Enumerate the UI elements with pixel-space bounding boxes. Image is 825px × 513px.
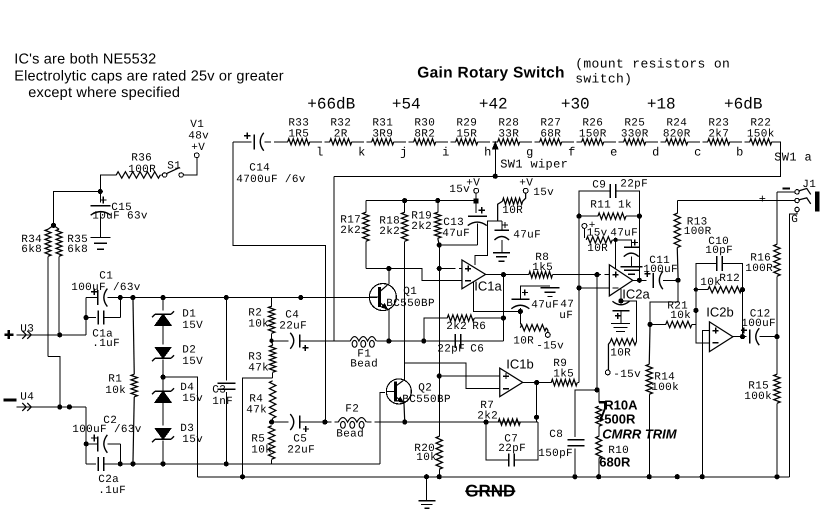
capacitor C2 100uF/63v <box>72 415 142 464</box>
capacitor C12 100uF <box>741 308 777 345</box>
svg-text:2k2: 2k2 <box>379 226 400 238</box>
junction R15 bottom <box>774 474 779 479</box>
svg-text:10k: 10k <box>248 318 269 330</box>
wire minus rail <box>120 463 380 465</box>
wire Q1 collector to IC1a minus <box>389 269 462 281</box>
svg-text:j: j <box>400 145 407 159</box>
junction IC2b plus bottom <box>700 474 705 479</box>
svg-text:+54: +54 <box>392 95 421 113</box>
svg-text:R12: R12 <box>719 273 740 285</box>
svg-text:100R: 100R <box>128 164 156 176</box>
resistor R25 330R <box>621 117 649 145</box>
note: mount resistors on switch <box>575 56 730 86</box>
wire plus rail <box>120 297 377 299</box>
junction IC2b minus node <box>693 308 698 313</box>
svg-text:R10A: R10A <box>604 397 638 412</box>
resistor R22 150k <box>747 117 775 145</box>
wire Q2 collector to IC1b minus <box>404 363 499 389</box>
junction Q1 emitter <box>386 338 391 343</box>
svg-text:10R: 10R <box>513 335 534 347</box>
svg-text:except where specified: except where specified <box>28 85 180 101</box>
svg-text:d: d <box>652 145 659 159</box>
junction IC2a V- node <box>618 298 623 303</box>
junction V- bypass node <box>518 309 523 314</box>
svg-text:22uF: 22uF <box>279 320 307 332</box>
gain label +42 <box>479 95 508 113</box>
resistor R34 6k8 <box>21 225 53 356</box>
junction IC1a output node <box>501 272 506 277</box>
wire SW1 box left edge <box>333 176 335 341</box>
note text: ICs are NE5532 <box>14 51 284 101</box>
junction R34/R35 top <box>51 223 56 228</box>
svg-text:100k: 100k <box>651 382 679 394</box>
svg-text:IC1b: IC1b <box>506 356 533 371</box>
resistor R4 47k <box>246 381 276 422</box>
svg-text:10R: 10R <box>610 347 631 359</box>
wire emitter2 line to R7 <box>405 421 538 423</box>
svg-text:Bead: Bead <box>350 358 378 370</box>
capacitor C9 22pF <box>579 178 648 216</box>
terminal +15v (IC2a V+) <box>582 220 608 240</box>
svg-text:+30: +30 <box>561 95 590 113</box>
wire IC1b plus lead <box>439 375 500 377</box>
capacitor 47uF (IC2a V+ bypass) <box>610 227 639 266</box>
resistor 10R to -15v (IC1 V-) <box>513 311 548 347</box>
svg-text:150k: 150k <box>747 128 775 140</box>
svg-text:48v: 48v <box>188 130 209 142</box>
junction trim tap <box>594 387 599 392</box>
junction C11 right node <box>676 278 681 283</box>
svg-text:GRND: GRND <box>465 481 515 500</box>
switch S1 <box>162 160 183 177</box>
capacitor C13 47uF <box>439 201 487 245</box>
svg-text:C6: C6 <box>470 343 484 355</box>
resistor R36 100R <box>116 152 162 178</box>
junction extra on U4 line <box>67 404 72 409</box>
svg-text:100R: 100R <box>745 263 773 275</box>
svg-text:.1uF: .1uF <box>98 485 126 497</box>
capacitor C1a .1uF <box>86 298 120 350</box>
svg-text:+V: +V <box>191 142 205 154</box>
resistor 10R to +15v (IC1 V+) <box>498 193 526 221</box>
resistor R12 10k <box>696 273 742 293</box>
wire V1 to S1 <box>183 158 197 175</box>
svg-text:820R: 820R <box>663 128 691 140</box>
svg-text:R1: R1 <box>108 373 122 385</box>
op-amp IC2a <box>609 265 650 302</box>
junction C12 right node <box>774 334 779 339</box>
gain label +6dB <box>724 95 762 113</box>
wire SW1 box right edge <box>334 142 781 177</box>
wire IC2b plus jog to GRND <box>702 331 709 477</box>
wire J1 minus to R16 <box>777 191 795 193</box>
svg-text:68R: 68R <box>540 128 561 140</box>
svg-text:C9: C9 <box>592 179 606 191</box>
junction C1 right <box>118 295 123 300</box>
SW1 wiper arrow <box>492 141 499 179</box>
junction R2/R3 node <box>269 339 273 343</box>
svg-text:22uF: 22uF <box>287 444 315 456</box>
resistor R29 15R <box>456 117 478 145</box>
junction stray on plus rail <box>298 295 303 300</box>
resistor R16 100R <box>745 192 780 337</box>
wire IC1a output <box>486 274 529 276</box>
wire R17 bottom to collector line <box>366 268 422 270</box>
ground C15 <box>91 237 111 249</box>
svg-text:330R: 330R <box>621 128 649 140</box>
svg-text:(mount resistors on: (mount resistors on <box>575 56 730 71</box>
resistor R32 2R <box>330 117 352 145</box>
svg-text:680R: 680R <box>599 454 631 469</box>
svg-text:Gain Rotary Switch: Gain Rotary Switch <box>417 64 565 81</box>
svg-text:22pF: 22pF <box>498 443 526 455</box>
resistor R28 33R <box>498 117 520 145</box>
capacitor C10 10pF <box>696 236 743 290</box>
resistor R14 100k <box>646 324 679 476</box>
wire R34 jog to U4 line <box>48 356 60 407</box>
junction R6 right <box>501 315 506 320</box>
wire R8 to IC2a plus <box>552 274 609 276</box>
resistor R13 100R <box>674 201 712 281</box>
junction C2 left <box>84 441 89 446</box>
junction C3 bottom <box>224 461 229 466</box>
svg-text:b: b <box>736 145 743 159</box>
resistor R1 10k <box>105 298 137 464</box>
svg-text:1nF: 1nF <box>212 396 233 408</box>
wire R11 right to output <box>638 216 640 280</box>
junction R35 on U3 line <box>57 332 62 337</box>
wire plus node down <box>596 275 598 390</box>
junction C14 tap on C5 line <box>322 419 327 424</box>
ferrite bead F2 <box>325 403 405 440</box>
svg-text:Q2: Q2 <box>418 382 432 394</box>
resistor 10R (IC2a V+) <box>584 228 615 254</box>
capacitor 47uF (IC2a V- bypass) <box>559 299 629 324</box>
wire C14 right lead <box>264 141 288 143</box>
svg-text:150R: 150R <box>579 128 607 140</box>
junction Q2 emitter <box>402 419 407 424</box>
wire Q1 emitter drop <box>388 309 390 341</box>
op-amp IC2b <box>706 304 733 351</box>
junction R11 right <box>637 214 642 219</box>
capacitor 47uF (IC1 V+ bypass) <box>494 221 541 252</box>
svg-text:2k7: 2k7 <box>708 128 729 140</box>
wire U4 line <box>31 406 86 408</box>
junction R7 left <box>483 419 488 424</box>
ferrite bead F1 <box>334 337 386 371</box>
svg-text:k: k <box>358 145 365 159</box>
svg-text:10pF: 10pF <box>705 245 733 257</box>
svg-text:47uF: 47uF <box>531 299 559 311</box>
switch position letters l-b <box>316 145 743 159</box>
wire IC2a V+ stub <box>615 240 617 268</box>
svg-text:C3: C3 <box>212 384 226 396</box>
capacitor C5 22uF <box>272 414 325 456</box>
resistor R10 680R <box>596 426 631 477</box>
svg-text:C8: C8 <box>549 429 563 441</box>
wire minus net vertical <box>578 191 580 382</box>
capacitor C11 100uF <box>643 255 678 290</box>
svg-text:10k: 10k <box>416 452 437 464</box>
svg-text:+6dB: +6dB <box>724 95 762 113</box>
resistor R31 3R9 <box>372 117 394 145</box>
resistor R6 2k2 <box>424 315 504 341</box>
resistor R3 47k <box>248 341 276 378</box>
junction R11 left <box>576 214 581 219</box>
svg-text:F2: F2 <box>345 403 359 415</box>
wire R3/R4 junction to GRND drop <box>243 378 273 477</box>
junction IC2a output node <box>637 278 642 283</box>
resistor R33 1R5 <box>288 117 310 145</box>
svg-text:i: i <box>442 145 449 159</box>
capacitor C2a .1uF <box>86 457 126 497</box>
svg-text:C14: C14 <box>249 162 270 174</box>
svg-text:3R9: 3R9 <box>372 128 393 140</box>
resistor R18 2k2 <box>379 201 408 368</box>
label GRND <box>465 481 515 500</box>
svg-text:IC1a: IC1a <box>474 278 502 293</box>
junction R21/R14 node <box>647 322 652 327</box>
ground (IC1 V+ bypass) <box>493 253 510 262</box>
wire IC1a out to R6 node <box>502 275 504 341</box>
junction C3 top <box>224 295 229 300</box>
capacitor C1 100uF/63v <box>71 270 141 306</box>
svg-text:+V: +V <box>519 177 533 189</box>
svg-text:15v: 15v <box>182 434 203 446</box>
svg-text:BC550BP: BC550BP <box>402 394 451 406</box>
svg-text:2k2: 2k2 <box>411 221 432 233</box>
svg-text:1R5: 1R5 <box>288 128 309 140</box>
junction R1 top <box>130 295 135 300</box>
junction R12 right <box>740 287 745 292</box>
junction R4/R5 <box>269 419 274 424</box>
label SW1 wiper <box>500 157 568 171</box>
trimmer R10A 500R CMRR TRIM <box>596 390 678 441</box>
terminal -15v (IC2a) <box>605 369 641 381</box>
junction C1a left <box>83 315 88 320</box>
resistor R35 6k8 <box>53 225 88 335</box>
wire bias rail <box>366 200 476 202</box>
capacitor C15 10uF 63v <box>91 192 148 238</box>
svg-text:R6: R6 <box>472 321 486 333</box>
svg-text:SW1 a: SW1 a <box>774 150 812 164</box>
junction IC2a V+ node <box>613 238 617 242</box>
wire emitter line to R6/C6 <box>385 340 503 342</box>
resistor R24 820R <box>663 117 691 145</box>
wire IC2a minus lead <box>579 287 609 289</box>
svg-text:Electrolytic caps are rated 25: Electrolytic caps are rated 25v or great… <box>14 68 284 84</box>
wire IC1a V+ stub <box>475 221 502 265</box>
svg-text:U4: U4 <box>20 391 34 403</box>
ground (IC1 V- bypass) <box>540 288 559 297</box>
ground main GRND <box>418 477 435 509</box>
junction R34 on U4 line <box>57 404 62 409</box>
svg-text:4700uF /6v: 4700uF /6v <box>236 174 306 186</box>
junction IC2a plus node <box>594 272 599 277</box>
svg-text:G: G <box>791 214 798 226</box>
label SW1 a <box>774 150 812 164</box>
svg-text:2R: 2R <box>334 128 348 140</box>
svg-text:47k: 47k <box>246 404 267 416</box>
wire IC1b output <box>523 382 552 384</box>
junction R20 bottom <box>437 474 442 479</box>
junction D3 bottom <box>160 461 165 466</box>
terminal -15v (IC1) <box>536 333 564 353</box>
zener D3 15v <box>152 423 203 464</box>
resistor R5 10k <box>251 426 275 464</box>
gain label +66dB <box>307 95 355 113</box>
terminal +V 15v left <box>449 177 480 203</box>
junction R10 bottom <box>596 474 601 479</box>
wire IC1b out to R7 right <box>534 383 539 423</box>
svg-text:100k: 100k <box>744 391 772 403</box>
zener D1 15V <box>152 298 203 345</box>
wire D-string midpoint to GRND rail <box>163 377 198 477</box>
resistor R30 8R2 <box>414 117 436 145</box>
wire Q2 emitter drop <box>403 402 406 422</box>
svg-text:e: e <box>610 145 617 159</box>
svg-text:6k8: 6k8 <box>21 244 42 256</box>
resistor R21 10k <box>650 290 696 328</box>
svg-text:IC's are both NE5532: IC's are both NE5532 <box>14 51 156 67</box>
wire Q2 collector riser <box>403 241 405 380</box>
svg-text:C1: C1 <box>99 270 113 282</box>
resistor R11 1k <box>579 199 639 219</box>
junction IC2a minus node <box>576 285 581 290</box>
junction R1 bottom <box>130 461 135 466</box>
junction R6 left drop <box>421 338 426 343</box>
junction IC1a plus tap <box>437 266 442 271</box>
wire C14 to C5 node <box>233 142 326 421</box>
svg-text:l: l <box>316 145 323 159</box>
resistor R26 150R <box>579 117 607 145</box>
svg-text:+42: +42 <box>479 95 508 113</box>
svg-text:Q1: Q1 <box>403 286 417 298</box>
svg-text:switch): switch) <box>575 71 632 86</box>
ground (IC2a V+ bypass) <box>620 267 642 274</box>
capacitor C4 22uF <box>272 309 334 351</box>
wire IC2a V- stub <box>620 289 622 301</box>
svg-text:f: f <box>568 145 575 159</box>
svg-text:IC2a: IC2a <box>622 286 650 301</box>
transistor Q2 BC550BP <box>386 379 451 406</box>
junction extra on GRND rail <box>675 474 680 479</box>
title: Gain Rotary Switch <box>417 64 565 81</box>
svg-text:15v: 15v <box>182 393 203 405</box>
svg-text:22pF: 22pF <box>620 178 648 190</box>
capacitor 47uF (IC1 V- bypass) <box>511 286 559 312</box>
ground (IC2a V- bypass) <box>611 323 630 331</box>
svg-text:47uF: 47uF <box>513 229 541 241</box>
svg-text:100uF /63v: 100uF /63v <box>71 282 141 294</box>
svg-text:h: h <box>484 145 491 159</box>
op-amp IC1b <box>500 356 534 396</box>
svg-text:10k: 10k <box>700 277 721 289</box>
resistor R8 1k5 <box>529 252 553 278</box>
wire node to R34 R35 <box>53 192 100 226</box>
junction IC1b plus tap <box>437 373 442 378</box>
junction D2/D4 midpoint <box>160 374 165 379</box>
svg-text:-15v: -15v <box>613 369 641 381</box>
zener D4 15v <box>152 377 203 425</box>
svg-text:.1uF: .1uF <box>92 338 120 350</box>
wire output to R21/R14 <box>650 280 678 324</box>
svg-text:15V: 15V <box>182 356 203 368</box>
wire GRND rail <box>198 476 790 478</box>
zener D2 15V <box>152 344 203 377</box>
wire R12 right to output <box>741 290 743 337</box>
svg-text:6k8: 6k8 <box>67 244 88 256</box>
resistor 10R (IC2a V-) <box>608 301 636 370</box>
wire Q2 base from minus rail <box>380 392 385 464</box>
svg-text:47uF: 47uF <box>610 227 638 239</box>
svg-text:2k2: 2k2 <box>477 410 498 422</box>
capacitor C14 4700uF <box>233 132 306 185</box>
junction R18 top <box>402 198 407 203</box>
junction R12 left <box>694 287 698 291</box>
wire common-mode net vertical <box>438 245 440 436</box>
wire Q1 collector riser <box>388 269 390 284</box>
svg-text:D1: D1 <box>182 308 196 320</box>
svg-text:D2: D2 <box>182 344 196 356</box>
capacitor C3 1nF <box>212 298 235 464</box>
wire IC2a output <box>633 279 647 281</box>
junction R19 top <box>435 198 440 203</box>
gain label +18 <box>647 95 676 113</box>
svg-text:15V: 15V <box>182 320 203 332</box>
wire J1 G line <box>790 212 798 477</box>
resistor R19 2k2 <box>411 201 441 245</box>
wire IC1a V- stub <box>474 282 521 312</box>
wire C8 branch <box>575 390 597 437</box>
resistor R27 68R <box>540 117 562 145</box>
svg-text:+18: +18 <box>647 95 676 113</box>
gain label +30 <box>561 95 590 113</box>
junction IC1b output node <box>534 380 539 385</box>
junction R14 bottom <box>647 474 652 479</box>
svg-text:100uF /63v: 100uF /63v <box>72 424 142 436</box>
svg-text:+: + <box>759 192 767 206</box>
svg-text:BC550BP: BC550BP <box>386 298 435 310</box>
svg-text:+66dB: +66dB <box>307 95 355 113</box>
svg-text:Bead: Bead <box>336 428 364 440</box>
svg-text:10k: 10k <box>105 385 126 397</box>
resistor R2 10k <box>248 298 275 341</box>
wire U3 corner up <box>85 298 87 335</box>
resistor R15 100k <box>744 337 780 477</box>
transistor Q1 BC550BP <box>369 284 435 311</box>
junction rail at GRND drop <box>240 474 245 479</box>
op-amp IC1a <box>462 260 503 293</box>
svg-text:SW1 wiper: SW1 wiper <box>500 157 568 171</box>
svg-text:47k: 47k <box>248 362 269 374</box>
wire J1 plus line <box>677 200 794 202</box>
svg-text:15v: 15v <box>533 187 554 199</box>
svg-text:8R2: 8R2 <box>414 128 435 140</box>
svg-text:CMRR TRIM: CMRR TRIM <box>602 426 678 441</box>
wire chain link dashes <box>310 141 750 143</box>
svg-text:33R: 33R <box>498 128 519 140</box>
resistor R17 2k2 <box>340 201 369 269</box>
resistor R23 2k7 <box>708 117 730 145</box>
svg-text:15R: 15R <box>456 128 477 140</box>
svg-text:15v: 15v <box>449 184 470 196</box>
wire U4 corner down <box>85 407 87 464</box>
junction Q1 collector node <box>386 266 391 271</box>
wire IC2b minus net <box>696 290 710 343</box>
resistor R7 2k2 <box>477 400 520 426</box>
capacitor C6 22pF <box>437 334 484 355</box>
